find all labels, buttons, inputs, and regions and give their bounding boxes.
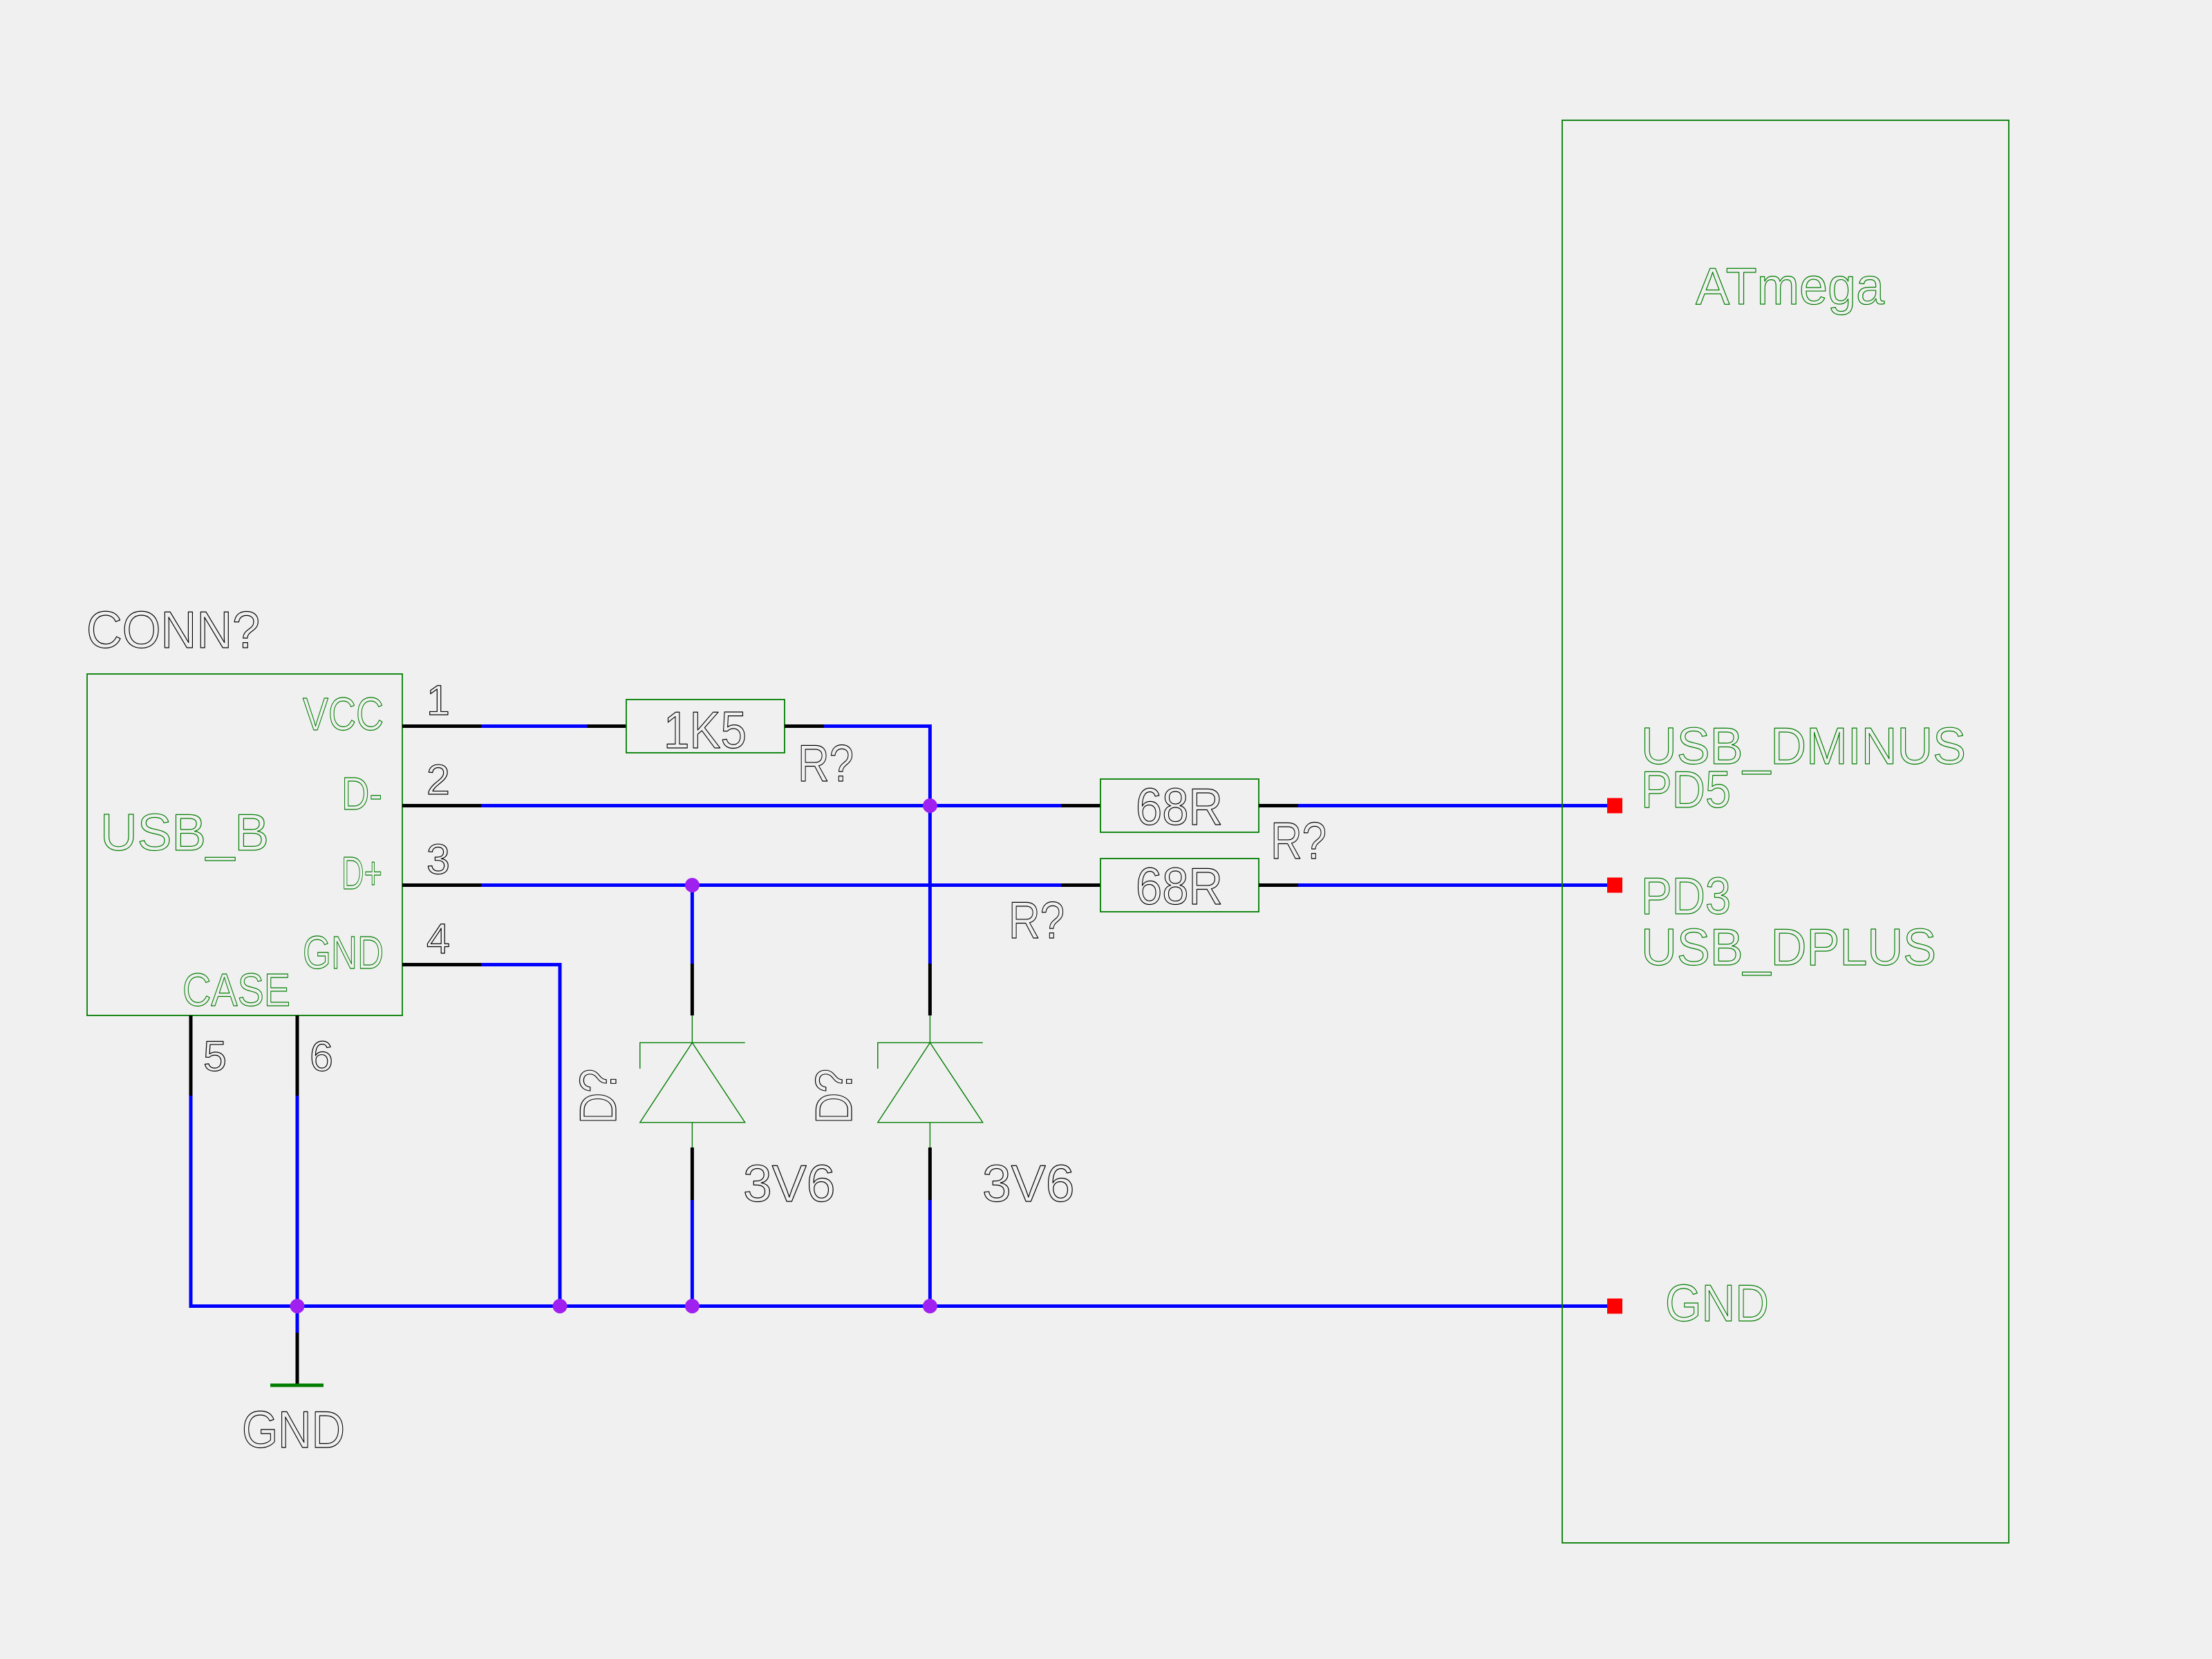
svg-text:D+: D+ [341, 847, 382, 899]
pin 1 stub (VCC) [402, 724, 481, 728]
pin PD5 endpoint (red square) [1607, 798, 1622, 814]
GND power symbol lead [296, 1333, 299, 1384]
wire VCC pin1 to R 1K5 [481, 724, 587, 728]
svg-text:GND: GND [1665, 1274, 1769, 1332]
svg-text:1K5: 1K5 [664, 701, 747, 759]
GND power symbol bar [270, 1384, 324, 1387]
svg-text:D?: D? [569, 1069, 627, 1124]
svg-text:3V6: 3V6 [982, 1154, 1074, 1212]
zener diode D? (on D+ line) upper lead [691, 885, 694, 964]
resistor R? 68R (D-) right lead [1259, 804, 1298, 807]
svg-text:D?: D? [805, 1069, 863, 1124]
resistor R? 68R (D+) right lead [1259, 883, 1298, 887]
svg-text:68R: 68R [1136, 778, 1223, 836]
resistor R? 68R (D-) left lead [1061, 804, 1100, 807]
resistor R? 1K5 right lead [785, 724, 824, 728]
svg-text:4: 4 [427, 915, 450, 962]
pin 6 stub (shield) [296, 1015, 299, 1096]
zener D? (right) symbol [878, 1015, 983, 1147]
wire from 1K5 down to D- net and zener D2 [824, 727, 930, 964]
resistor R? 1K5 body [626, 700, 785, 753]
svg-text:GND: GND [242, 1400, 345, 1459]
resistor R? 68R (D+) left lead [1061, 883, 1100, 887]
svg-text:R?: R? [798, 734, 854, 792]
pin PD3 endpoint (red square) [1607, 878, 1622, 893]
junction rail at pin6 [290, 1299, 305, 1313]
wire D- pin2 to R 68R [481, 804, 1061, 807]
pin 3 stub (D+) [402, 883, 481, 887]
svg-text:PD5: PD5 [1641, 760, 1731, 818]
resistor R? 1K5 left lead [587, 724, 626, 728]
svg-text:USB_DPLUS: USB_DPLUS [1641, 918, 1936, 976]
resistor R? 68R (D+) body [1100, 859, 1259, 912]
svg-text:GND: GND [303, 927, 384, 979]
zener diode D? (on D- line) upper lead [928, 964, 932, 1015]
wire pin5 down and to ground rail [191, 1096, 297, 1306]
svg-text:68R: 68R [1136, 857, 1223, 915]
resistor R? 68R (D-) body [1100, 779, 1259, 832]
svg-text:5: 5 [203, 1033, 227, 1080]
wire GND pin4 down to ground rail [481, 965, 560, 1306]
svg-text:PD3: PD3 [1641, 867, 1731, 925]
zener D? (left) symbol [640, 1015, 745, 1147]
pin 2 stub (D-) [402, 804, 481, 807]
ground rail wire [297, 1304, 1607, 1308]
svg-text:3V6: 3V6 [743, 1154, 835, 1212]
svg-text:2: 2 [427, 756, 450, 803]
svg-text:6: 6 [310, 1033, 333, 1080]
svg-text:R?: R? [1009, 891, 1065, 949]
junction rail at pin4 drop [553, 1299, 568, 1313]
junction rail at right zener [923, 1299, 937, 1313]
wire 68R to ATmega PD3 [1298, 883, 1607, 887]
wire 68R to ATmega PD5 [1298, 804, 1607, 807]
junction rail at left zener [685, 1299, 700, 1313]
svg-text:CONN?: CONN? [86, 601, 260, 659]
svg-text:R?: R? [1271, 812, 1327, 870]
wire stub to GND power symbol [296, 1306, 299, 1333]
wire pin6 down to ground rail [296, 1096, 299, 1306]
pin GND endpoint (red square) [1607, 1299, 1622, 1314]
svg-text:USB_B: USB_B [100, 803, 269, 861]
junction on D+ line [685, 878, 700, 892]
svg-text:CASE: CASE [182, 964, 290, 1016]
connector U: USB_B body box [87, 674, 402, 1015]
pin 5 stub (shield) [189, 1015, 193, 1096]
wire D+ pin3 to R 68R [481, 883, 1061, 887]
zener D? (left) lower lead [691, 1147, 694, 1200]
svg-text:1: 1 [427, 677, 450, 724]
zener D? (right) lower lead [928, 1147, 932, 1200]
pin 4 stub (GND) [402, 963, 481, 966]
svg-text:D-: D- [341, 768, 382, 820]
ATmega body box [1562, 120, 2009, 1543]
svg-text:VCC: VCC [303, 688, 384, 740]
junction on D- line [923, 798, 937, 813]
svg-text:ATmega: ATmega [1696, 257, 1884, 315]
svg-text:3: 3 [427, 836, 450, 883]
